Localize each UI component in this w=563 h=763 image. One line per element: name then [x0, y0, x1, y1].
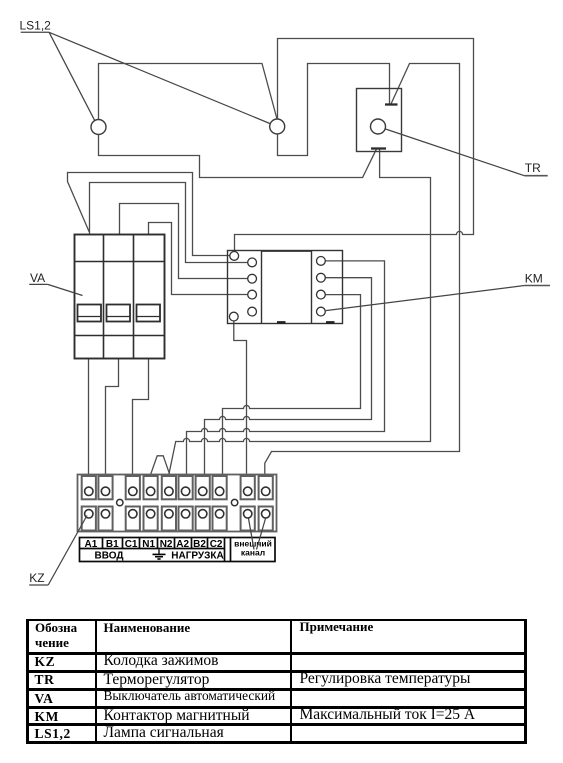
terminal N1 of block KZ	[144, 476, 158, 531]
label VA	[29, 271, 48, 285]
wire lamp LS2 bottom to TR top terminal	[278, 64, 390, 156]
leader line terminal 10 to label внешний канал	[257, 519, 266, 550]
svg-text:VA: VA	[30, 271, 45, 285]
KM contact terminal 4	[317, 273, 326, 282]
lamp LS1	[91, 120, 106, 135]
wire VA pole3 top to KM contact 5	[149, 223, 248, 295]
KM contact terminal 5	[248, 290, 257, 299]
leader line from label KZ to terminal block	[48, 516, 87, 586]
label TR	[524, 161, 547, 176]
svg-text:В1: В1	[106, 539, 119, 550]
svg-text:KM: KM	[525, 272, 543, 286]
svg-text:KZ: KZ	[29, 571, 44, 585]
KM aux terminal 13	[248, 307, 257, 316]
label LS1,2	[20, 18, 52, 32]
terminal B1 of block KZ	[98, 476, 112, 531]
terminal N2 of block KZ	[162, 476, 176, 531]
jumper wire terminal N1 to terminal N2	[151, 456, 170, 474]
ground symbol	[153, 550, 166, 560]
wire VA pole2 top to KM contact 3	[120, 204, 248, 279]
KM coil terminal A1 (top-left)	[230, 252, 239, 261]
svg-text:НАГРУЗКА: НАГРУЗКА	[171, 550, 223, 561]
svg-text:LS1,2: LS1,2	[20, 18, 52, 32]
KM aux terminal 14	[317, 307, 326, 316]
KM contact terminal 3	[248, 274, 257, 283]
terminal A1 of block KZ	[82, 476, 96, 531]
svg-text:канал: канал	[241, 548, 265, 558]
terminal B2 of block KZ	[196, 476, 210, 531]
label KZ	[29, 571, 48, 585]
lamp LS2	[270, 119, 285, 134]
terminal designation strip frame	[80, 538, 276, 562]
svg-text:А2: А2	[176, 539, 189, 550]
thermoregulator TR	[357, 89, 402, 152]
mounting hole left of block KZ	[117, 499, 123, 505]
wire KM contact 2 to terminal A2	[187, 261, 385, 474]
wire lamp LS1 bottom to TR bottom terminal	[99, 135, 377, 178]
KM contact terminal 6	[317, 290, 326, 299]
svg-text:TR: TR	[525, 161, 541, 175]
svg-text:ВВОД: ВВОД	[95, 550, 124, 561]
svg-text:С1: С1	[125, 539, 138, 550]
wire VA pole2 bottom to terminal B1	[106, 358, 119, 474]
wire lamp LS2 top to KM coil terminal (node A)	[235, 39, 474, 252]
label внешний канал	[234, 538, 272, 557]
wire VA pole1 bottom to terminal A1	[88, 358, 90, 474]
svg-text:С2: С2	[210, 539, 223, 550]
terminal A2 of block KZ	[179, 476, 193, 531]
leader line from KM aux terminal to label KM	[326, 286, 525, 311]
wire KM coil terminal A2 to terminal block pin 9	[234, 321, 247, 474]
wire KM contact 6 to terminal C2	[223, 295, 361, 475]
leader line from label VA to VA	[48, 284, 83, 295]
KM coil terminal A2 (bottom-left)	[229, 312, 238, 321]
svg-text:N2: N2	[160, 539, 173, 550]
leader line from TR to label TR	[385, 129, 524, 176]
terminal ext-channel-1 of block KZ	[241, 476, 255, 531]
wire lamp LS1 top to lamp LS2 top	[99, 64, 278, 120]
wire VA pole1 top to KM coil terminal	[68, 173, 230, 256]
leader line terminal 9 to label внешний канал	[249, 519, 255, 550]
label KM	[524, 272, 550, 286]
terminal C2 of block KZ	[213, 476, 227, 531]
mounting hole right of block KZ	[231, 499, 237, 505]
contactor KM body	[228, 251, 343, 324]
KM contact terminal 2	[317, 257, 326, 266]
wire KM contact 4 to terminal B2	[205, 278, 372, 475]
leader line from label LS1,2 to lamp LS1	[49, 32, 95, 120]
KM contact terminal 1	[248, 258, 257, 267]
wire TR bottom terminal to terminal N2	[169, 149, 431, 474]
terminal ext-channel-2 of block KZ	[259, 476, 273, 531]
svg-text:А1: А1	[85, 539, 98, 550]
wire TR top terminal to terminal block pin 10	[265, 64, 460, 475]
leader line from label LS1,2 to lamp LS2	[49, 32, 270, 123]
svg-text:N1: N1	[142, 539, 155, 550]
wire VA pole3 bottom to terminal C1	[133, 358, 149, 474]
terminal C1 of block KZ	[126, 476, 140, 531]
terminal block KZ outline	[78, 475, 277, 532]
circuit breaker VA	[75, 235, 165, 359]
legend table	[0, 0, 563, 1]
wire VA pole1 top to KM contact 1	[90, 183, 248, 263]
svg-text:В2: В2	[193, 539, 206, 550]
